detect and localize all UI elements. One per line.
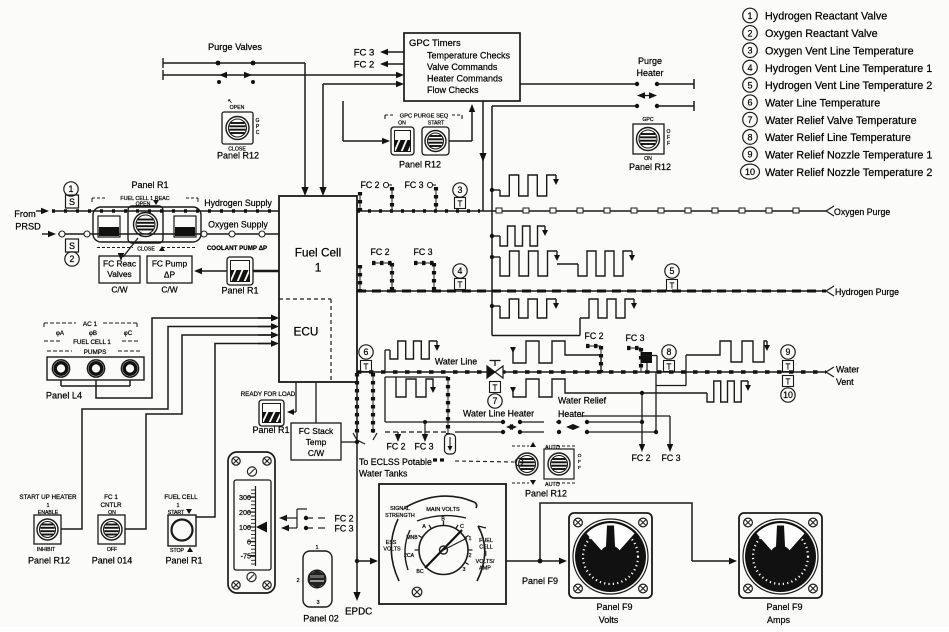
svg-text:S: S [69,197,75,207]
svg-text:Panel R1: Panel R1 [252,425,289,435]
svg-text:Panel R12: Panel R12 [525,489,567,499]
svg-text:7: 7 [747,115,752,125]
svg-text:C: C [460,524,464,530]
svg-text:Hydrogen Vent Line Temperature: Hydrogen Vent Line Temperature 2 [765,80,932,92]
svg-text:FC Reac: FC Reac [103,259,136,269]
svg-text:1: 1 [69,184,74,194]
svg-text:EPDC: EPDC [345,607,372,618]
svg-text:Panel R12: Panel R12 [28,556,70,566]
svg-text:Hydrogen Vent Line Temperature: Hydrogen Vent Line Temperature 1 [765,63,932,75]
svg-text:T: T [364,362,369,371]
svg-text:From: From [14,209,36,219]
svg-text:T: T [493,383,498,392]
svg-text:COOLANT PUMP ΔP: COOLANT PUMP ΔP [207,245,267,252]
svg-text:1: 1 [747,11,752,21]
svg-text:Panel R1: Panel R1 [221,286,258,296]
svg-text:MAIN VOLTS: MAIN VOLTS [426,507,460,513]
svg-text:FUEL CELL: FUEL CELL [164,494,198,501]
svg-text:1: 1 [469,536,472,542]
svg-text:4: 4 [747,63,752,73]
svg-text:Water: Water [836,365,859,375]
svg-text:Panel F9: Panel F9 [766,602,802,612]
svg-text:FC 2: FC 2 [631,453,650,463]
svg-text:7: 7 [493,396,498,406]
svg-text:ECU: ECU [294,325,319,339]
svg-text:φB: φB [89,330,97,337]
svg-text:FC 2: FC 2 [360,180,379,190]
svg-text:PUMPS: PUMPS [84,349,107,356]
svg-text:SIGNAL: SIGNAL [390,506,410,512]
svg-text:CELL: CELL [479,545,493,551]
svg-text:3: 3 [747,46,752,56]
svg-text:Water Relief Nozzle Temperatu: Water Relief Nozzle Temperature 2 [765,167,932,179]
svg-text:ON: ON [398,121,406,127]
svg-text:Water Line: Water Line [435,357,477,367]
svg-text:10: 10 [783,390,793,400]
svg-text:T: T [670,281,675,290]
svg-text:1: 1 [46,503,49,509]
svg-text:6: 6 [364,347,369,357]
svg-text:FC 3: FC 3 [414,442,433,452]
svg-text:T: T [458,199,463,208]
svg-text:Amps: Amps [767,615,791,625]
svg-text:FC 1: FC 1 [104,494,118,501]
svg-text:Water Relief: Water Relief [558,396,607,406]
svg-text:OPEN: OPEN [136,202,151,208]
svg-text:Water Line Heater: Water Line Heater [463,409,534,419]
svg-text:2: 2 [70,254,75,264]
svg-text:T: T [667,362,672,371]
svg-text:STRENGTH: STRENGTH [385,513,415,519]
svg-text:6: 6 [747,98,752,108]
svg-text:Oxygen Vent Line Temperature: Oxygen Vent Line Temperature [765,45,914,57]
svg-text:A: A [422,524,426,530]
svg-text:2: 2 [747,28,752,38]
svg-text:FC 3: FC 3 [661,453,680,463]
svg-text:Hydrogen Supply: Hydrogen Supply [204,198,272,208]
svg-text:4: 4 [458,266,463,276]
svg-text:φC: φC [124,330,133,337]
svg-text:8: 8 [667,347,672,357]
svg-text:Panel R12: Panel R12 [217,151,259,161]
svg-text:GPC Timers: GPC Timers [409,38,461,49]
svg-text:BC: BC [416,569,423,575]
svg-text:T: T [458,280,463,289]
svg-text:Oxygen Reactant Valve: Oxygen Reactant Valve [765,28,878,40]
svg-text:F: F [578,459,581,465]
svg-text:Panel F9: Panel F9 [522,576,558,586]
svg-text:Water Relief Valve Temperature: Water Relief Valve Temperature [765,115,917,127]
svg-text:AUTO: AUTO [545,482,560,488]
svg-text:START: START [428,121,445,127]
svg-text:Panel R1: Panel R1 [165,556,202,566]
svg-text:OFF: OFF [107,547,117,553]
svg-text:FC 3: FC 3 [404,180,423,190]
svg-text:To ECLSS Potable: To ECLSS Potable [359,457,432,467]
svg-text:INHIBIT: INHIBIT [37,547,56,553]
svg-text:GPC: GPC [642,117,653,123]
svg-text:Valve Commands: Valve Commands [427,62,498,72]
svg-text:GPC PURGE SEQ: GPC PURGE SEQ [400,114,449,120]
svg-text:FC 2: FC 2 [386,442,405,452]
svg-text:Panel R12: Panel R12 [629,162,671,172]
svg-text:Heater: Heater [636,68,663,78]
svg-text:9: 9 [747,150,752,160]
svg-text:Panel L4: Panel L4 [46,391,82,401]
svg-text:Purge: Purge [638,56,662,66]
svg-text:Volts: Volts [599,615,619,625]
svg-text:1: 1 [176,503,179,509]
svg-text:2: 2 [296,578,299,584]
svg-text:1: 1 [315,545,318,551]
svg-text:C: C [256,130,260,136]
svg-text:STOP: STOP [170,548,185,554]
svg-text:Fuel Cell: Fuel Cell [295,246,342,260]
svg-text:Panel R1: Panel R1 [131,180,168,190]
svg-text:Panel 02: Panel 02 [303,614,339,624]
svg-text:F: F [667,141,670,147]
svg-text:C/W: C/W [308,448,324,458]
svg-text:Water Tanks: Water Tanks [359,469,408,479]
svg-text:START UP HEATER: START UP HEATER [19,494,77,501]
svg-text:Hydrogen Reactant Valve: Hydrogen Reactant Valve [765,11,887,23]
svg-text:Panel R12: Panel R12 [399,160,441,170]
svg-text:FC 3: FC 3 [413,247,432,257]
svg-text:Hydrogen Purge: Hydrogen Purge [835,287,899,297]
svg-text:Oxygen Purge: Oxygen Purge [834,207,890,217]
svg-text:5: 5 [670,266,675,276]
svg-text:T: T [786,377,791,386]
svg-text:FUEL: FUEL [479,538,493,544]
svg-text:READY FOR LOAD: READY FOR LOAD [241,391,296,398]
svg-text:8: 8 [747,132,752,142]
svg-text:Temp: Temp [306,437,327,447]
svg-text:9: 9 [786,347,791,357]
svg-text:T: T [786,362,791,371]
svg-text:Heater: Heater [558,409,584,419]
svg-text:FC 2: FC 2 [584,331,603,341]
svg-text:C/W: C/W [111,285,127,295]
svg-text:φA: φA [56,330,65,337]
svg-text:C/W: C/W [161,285,177,295]
svg-text:Water Relief Line Temperature: Water Relief Line Temperature [765,132,911,144]
svg-text:ΔP: ΔP [164,270,176,280]
svg-text:Water Relief Nozzle Temperatu: Water Relief Nozzle Temperature 1 [765,150,932,162]
svg-text:FC 3: FC 3 [625,333,644,343]
svg-text:5: 5 [747,80,752,90]
svg-text:AC 1: AC 1 [83,321,98,328]
svg-text:FC Stack: FC Stack [299,426,334,436]
svg-text:FC 2: FC 2 [354,60,375,71]
svg-text:Oxygen Supply: Oxygen Supply [208,220,268,230]
svg-text:VOLTS: VOLTS [383,547,401,553]
svg-text:S: S [69,241,75,251]
svg-text:FC 2: FC 2 [334,514,353,524]
svg-text:CLOSE: CLOSE [137,247,155,253]
svg-text:FUEL CELL 1: FUEL CELL 1 [73,339,111,346]
svg-text:FC 3: FC 3 [354,48,375,59]
svg-text:Panel 014: Panel 014 [92,556,133,566]
svg-text:Temperature Checks: Temperature Checks [427,51,511,61]
svg-text:CNTLR: CNTLR [101,502,122,509]
svg-text:3: 3 [463,567,466,573]
svg-text:10: 10 [745,167,755,177]
svg-text:Water Line Temperature: Water Line Temperature [765,97,880,109]
svg-text:PRSD: PRSD [15,222,41,232]
svg-text:F: F [578,465,581,471]
svg-text:1: 1 [315,261,322,275]
svg-text:Vent: Vent [836,377,854,387]
svg-text:AUTO: AUTO [545,445,560,451]
svg-text:FC 3: FC 3 [334,524,353,534]
svg-text:2: 2 [469,553,472,559]
svg-text:3: 3 [316,600,319,606]
svg-text:Valves: Valves [107,269,132,279]
svg-text:Panel F9: Panel F9 [596,602,632,612]
svg-text:FC Pump: FC Pump [152,259,188,269]
svg-text:OPEN: OPEN [230,105,245,111]
svg-text:Purge Valves: Purge Valves [208,42,262,52]
svg-text:VOLTS/: VOLTS/ [476,559,495,565]
svg-text:FC 2: FC 2 [370,247,389,257]
svg-text:Heater Commands: Heater Commands [427,74,503,84]
svg-text:Flow Checks: Flow Checks [427,85,479,95]
svg-text:O: O [578,453,582,459]
svg-text:3: 3 [458,185,463,195]
svg-text:↖: ↖ [227,99,232,105]
